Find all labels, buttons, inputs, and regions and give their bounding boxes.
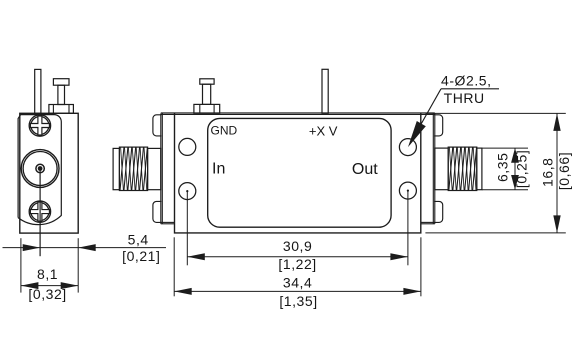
- dimension 8,1 extension lines: [20, 238, 22, 292]
- left SMA connector cap: [113, 148, 119, 189]
- svg-text:8,1: 8,1: [37, 266, 58, 282]
- end view feedthrough pin stem: [58, 85, 65, 104]
- hole callout leader: [441, 88, 499, 90]
- left end plate: [160, 114, 162, 224]
- svg-text:4-Ø2.5,: 4-Ø2.5,: [441, 72, 492, 88]
- svg-text:34,4: 34,4: [283, 274, 312, 290]
- mounting hole top-right: [399, 139, 416, 156]
- svg-text:Out: Out: [352, 161, 378, 178]
- mounting hole top-left: [179, 138, 196, 155]
- end view cover plate with rounded corner and bottom arc: [18, 115, 61, 225]
- svg-text:5,4: 5,4: [128, 232, 149, 248]
- end view feedthrough pin cap: [53, 79, 69, 86]
- dimension 16,8 extension lines: [425, 112, 565, 114]
- svg-text:[0,25]: [0,25]: [513, 150, 529, 188]
- svg-text:In: In: [212, 161, 225, 178]
- top view feedthrough pin cap: [200, 79, 214, 84]
- dimension 34,4 line: [174, 290, 421, 292]
- right SMA connector neck: [435, 148, 448, 190]
- svg-text:[0,32]: [0,32]: [28, 286, 66, 302]
- dimension 6,35 extension lines: [482, 147, 528, 149]
- top view feedthrough pin stem: [203, 84, 211, 104]
- svg-text:[1,35]: [1,35]: [279, 293, 317, 309]
- svg-text:[0,66]: [0,66]: [556, 152, 572, 190]
- dimension 5,4 line: [3, 247, 167, 249]
- mounting hole bottom-right: [399, 182, 416, 199]
- svg-text:GND: GND: [211, 124, 238, 138]
- left SMA connector threads: [119, 147, 147, 190]
- svg-text:+X V: +X V: [309, 123, 338, 138]
- end view top wire lead: [35, 69, 41, 113]
- mounting hole bottom-left: [179, 183, 196, 200]
- top view body outline: [175, 113, 421, 233]
- dimension 6,35 line: [514, 148, 516, 190]
- body edge extension lines: [173, 237, 175, 296]
- end view body outline: [20, 113, 78, 233]
- top view cover lid: [208, 118, 391, 227]
- svg-text:6,35: 6,35: [495, 153, 511, 182]
- right SMA connector threads: [448, 147, 477, 190]
- dimension 16,8 line: [556, 113, 558, 232]
- right end plate: [432, 114, 434, 224]
- svg-text:[0,21]: [0,21]: [122, 248, 160, 264]
- svg-text:[1,22]: [1,22]: [278, 256, 316, 272]
- left end plate tabs: [153, 115, 162, 136]
- right SMA connector cap: [477, 148, 482, 190]
- dimension 8,1 line: [21, 285, 78, 287]
- top view feedthrough pin base: [194, 104, 220, 113]
- hole center extension lines: [186, 191, 188, 265]
- svg-text:30,9: 30,9: [283, 238, 312, 254]
- dimension 30,9 line: [187, 256, 408, 258]
- svg-text:16,8: 16,8: [540, 157, 556, 186]
- end view feedthrough pin base: [49, 105, 74, 114]
- svg-text:THRU: THRU: [444, 90, 485, 106]
- right end plate tabs: [434, 115, 443, 136]
- end view SMA connector face: [21, 150, 59, 188]
- end view top screw: [29, 115, 50, 136]
- top view body top double edge: [161, 112, 435, 114]
- end view bottom screw: [29, 201, 50, 222]
- left SMA connector neck: [148, 148, 161, 189]
- end view vertical centerline: [39, 169, 41, 257]
- top view wire lead: [322, 69, 328, 113]
